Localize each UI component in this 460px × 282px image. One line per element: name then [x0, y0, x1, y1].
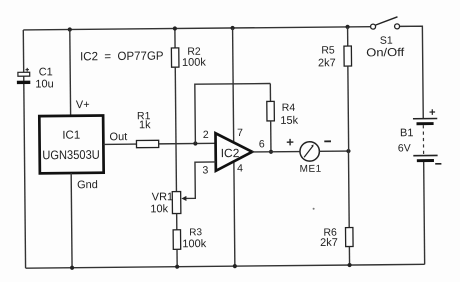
- svg-text:On/Off: On/Off: [366, 47, 405, 59]
- wire R2 chain vertical: [174, 29, 176, 48]
- wire V+ branch: [69, 30, 72, 116]
- svg-text:S1: S1: [380, 35, 393, 47]
- node meter junction: [346, 149, 350, 153]
- VR1 wiper arrow: [181, 196, 186, 201]
- svg-text:10k: 10k: [150, 203, 168, 215]
- meter ME1: [299, 142, 321, 175]
- wire VR1 to R3: [176, 214, 178, 230]
- svg-text:UGN3503U: UGN3503U: [42, 148, 100, 163]
- wire bottom rail: [26, 264, 425, 268]
- wire left rail: [23, 30, 25, 268]
- switch S1: [366, 17, 405, 60]
- op-amp U1 IC2: [215, 133, 252, 171]
- resistor R4: [267, 101, 299, 127]
- svg-text:1k: 1k: [139, 119, 151, 131]
- wire R5 to meter junction: [347, 66, 350, 151]
- node pin7 top: [230, 26, 234, 30]
- node V+ top: [68, 27, 72, 31]
- svg-text:7: 7: [237, 127, 243, 139]
- wire IC1 out to R1: [103, 143, 136, 145]
- stray speck: [313, 208, 315, 210]
- svg-text:R5: R5: [321, 44, 335, 56]
- svg-text:IC2: IC2: [221, 146, 240, 160]
- node R4 output junction: [269, 150, 273, 154]
- svg-text:R3: R3: [189, 227, 202, 238]
- wire feedback to R4: [269, 84, 271, 102]
- svg-text:100k: 100k: [182, 238, 206, 250]
- svg-text:2k7: 2k7: [320, 237, 338, 249]
- potentiometer VR1: [150, 191, 181, 215]
- capacitor C1: [17, 66, 54, 90]
- svg-text:4: 4: [237, 162, 243, 174]
- node R5 top: [345, 25, 349, 29]
- wire pin7 supply: [233, 28, 234, 143]
- wire battery bottom to rail: [423, 161, 426, 265]
- wire switch to battery top: [400, 26, 424, 119]
- svg-text:VR1: VR1: [152, 191, 174, 203]
- svg-text:6V: 6V: [398, 142, 411, 154]
- svg-text:100k: 100k: [182, 57, 206, 69]
- svg-text:C1: C1: [39, 66, 53, 78]
- wire pin4 supply: [234, 161, 235, 266]
- resistor R6: [320, 226, 353, 249]
- wire R6 to bottom rail: [348, 247, 350, 265]
- wire Gnd branch: [70, 173, 73, 268]
- wire R3 to bottom rail: [176, 249, 178, 266]
- node Gnd bottom: [70, 266, 74, 270]
- node R2 top: [173, 26, 177, 30]
- wire top rail: [23, 27, 370, 30]
- wire R4 to output: [270, 121, 272, 152]
- battery B1: [397, 109, 441, 164]
- svg-text:2k7: 2k7: [318, 57, 336, 69]
- node feedback/pin2 junction: [193, 141, 197, 145]
- svg-text:Out: Out: [109, 131, 127, 143]
- svg-text:IC1: IC1: [62, 130, 80, 142]
- wire meter to R5R6 line: [319, 150, 348, 152]
- svg-text:6: 6: [259, 138, 265, 150]
- svg-text:ME1: ME1: [300, 164, 322, 175]
- IC1 UGN3503U: [39, 116, 103, 174]
- wire R2 bottom to VR1 top: [175, 67, 176, 191]
- wire pin3 to VR1 wiper: [184, 162, 217, 199]
- wire R5 top: [347, 27, 349, 46]
- resistor R1: [136, 110, 159, 148]
- svg-text:B1: B1: [400, 127, 414, 139]
- wire opamp output to meter: [252, 151, 300, 153]
- label minus meter: [324, 140, 331, 142]
- svg-text:10u: 10u: [35, 78, 53, 90]
- label plus meter: [287, 139, 294, 146]
- resistor R2: [171, 46, 206, 69]
- wire R1 to pin2: [159, 142, 216, 145]
- wire feedback loop: [195, 84, 271, 144]
- svg-text:15k: 15k: [280, 115, 298, 127]
- wire meter junction to R6: [347, 151, 350, 227]
- svg-text:Gnd: Gnd: [77, 179, 98, 191]
- svg-text:3: 3: [202, 164, 208, 176]
- resistor R5: [318, 44, 352, 69]
- node R3 bottom: [175, 265, 179, 269]
- node pin4 bottom: [233, 264, 237, 268]
- svg-text:2: 2: [203, 129, 209, 141]
- resistor R3: [173, 227, 207, 250]
- svg-text:V+: V+: [76, 99, 90, 111]
- node R6 bottom: [347, 263, 351, 267]
- svg-text:IC2 = OP77GP: IC2 = OP77GP: [80, 49, 164, 64]
- svg-text:R4: R4: [282, 102, 296, 114]
